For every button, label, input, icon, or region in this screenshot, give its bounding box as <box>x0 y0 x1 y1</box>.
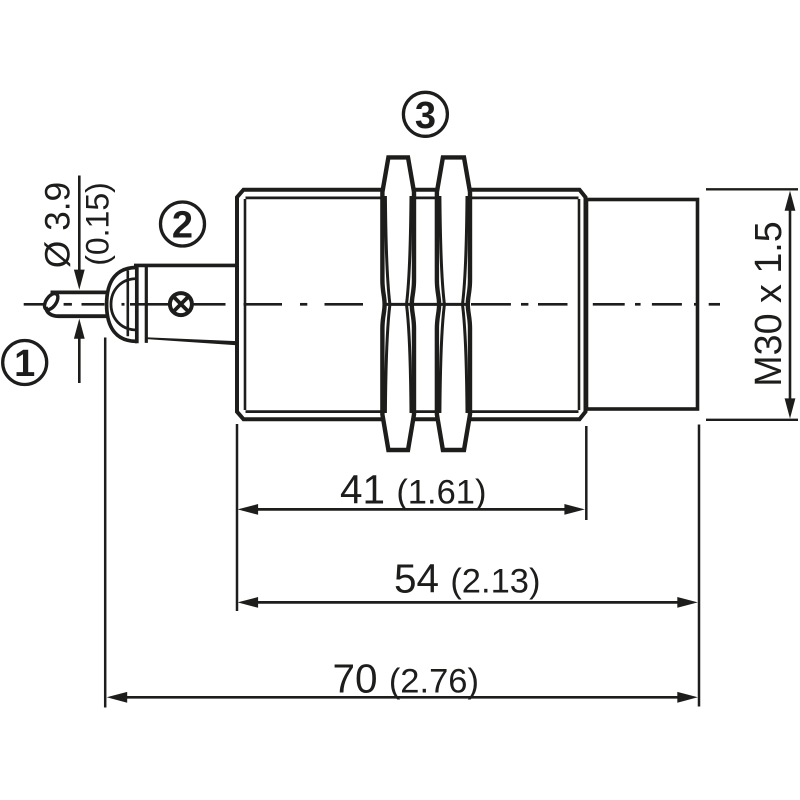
svg-text:1: 1 <box>14 343 35 385</box>
svg-text:3: 3 <box>415 95 436 137</box>
svg-text:M30 x 1.5: M30 x 1.5 <box>747 221 789 387</box>
svg-text:Ø 3.9: Ø 3.9 <box>39 182 78 268</box>
svg-text:54 (2.13): 54 (2.13) <box>394 555 540 601</box>
svg-text:70 (2.76): 70 (2.76) <box>333 656 479 702</box>
svg-text:(0.15): (0.15) <box>79 182 115 266</box>
svg-text:41 (1.61): 41 (1.61) <box>340 466 486 512</box>
svg-text:2: 2 <box>172 205 193 247</box>
